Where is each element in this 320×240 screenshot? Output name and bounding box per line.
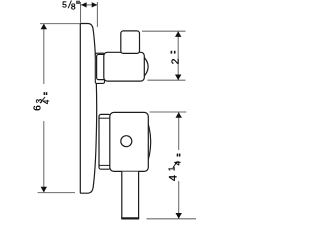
lower stem [122,172,139,219]
svg-text:4: 4 [42,99,51,104]
dim 2in extension line top [142,30,186,32]
label 4-1/4 [168,154,183,182]
dim 6-3/4 extension line bottom [38,192,75,194]
dim 6-3/4 arrow down [41,187,47,193]
svg-text:8: 8 [71,1,76,11]
dim 4-1/4 extension line top [150,111,187,113]
svg-text:6: 6 [33,105,44,111]
svg-text:4: 4 [174,160,183,165]
dim 5/8 arrow right [92,2,98,7]
svg-text:2: 2 [170,58,182,64]
dim 5/8 extension line right [96,2,98,27]
label 6-3/4 [33,92,52,111]
dim 5/8 extension line left [80,2,82,23]
dim 4-1/4 arrow down [176,213,182,219]
handle screw circle [121,136,132,147]
upper knob [121,31,140,54]
dim 2in arrow up [175,31,181,37]
escutcheon plate (side profile, domed) [80,24,96,194]
dim 2in arrow down [175,75,181,81]
upper handle hub [97,54,107,79]
lower hub seam line top [100,117,111,119]
upper handle body [104,52,145,81]
upper handle bulge (right silhouette) [142,55,149,80]
dim 6-3/4 arrow up [41,24,47,30]
lower handle bulge (right silhouette) [146,116,151,168]
upper handle flange (base ring behind hub) [95,53,104,83]
lower handle body [110,112,149,171]
lower hub seam line bottom [100,164,111,166]
dim 2in extension line bottom [148,79,186,81]
label 2in [170,51,182,65]
dim 5/8 arrow left [81,2,87,7]
dim 4-1/4 line [178,112,180,150]
dim 6-3/4 line [43,24,45,84]
dim 4-1/4 extension line bottom [147,218,197,220]
svg-text:4: 4 [168,175,180,181]
lower stem bold bottom edge [121,217,139,219]
svg-text:1: 1 [168,167,177,171]
dim 2in line [177,31,179,80]
dim 4-1/4 arrow up [176,112,182,118]
label 5/8 [62,0,80,11]
dim 5/8 line [81,4,97,6]
dim 6-3/4 extension line top [40,23,80,25]
lower handle hub [99,114,110,169]
svg-text:5: 5 [62,0,67,10]
